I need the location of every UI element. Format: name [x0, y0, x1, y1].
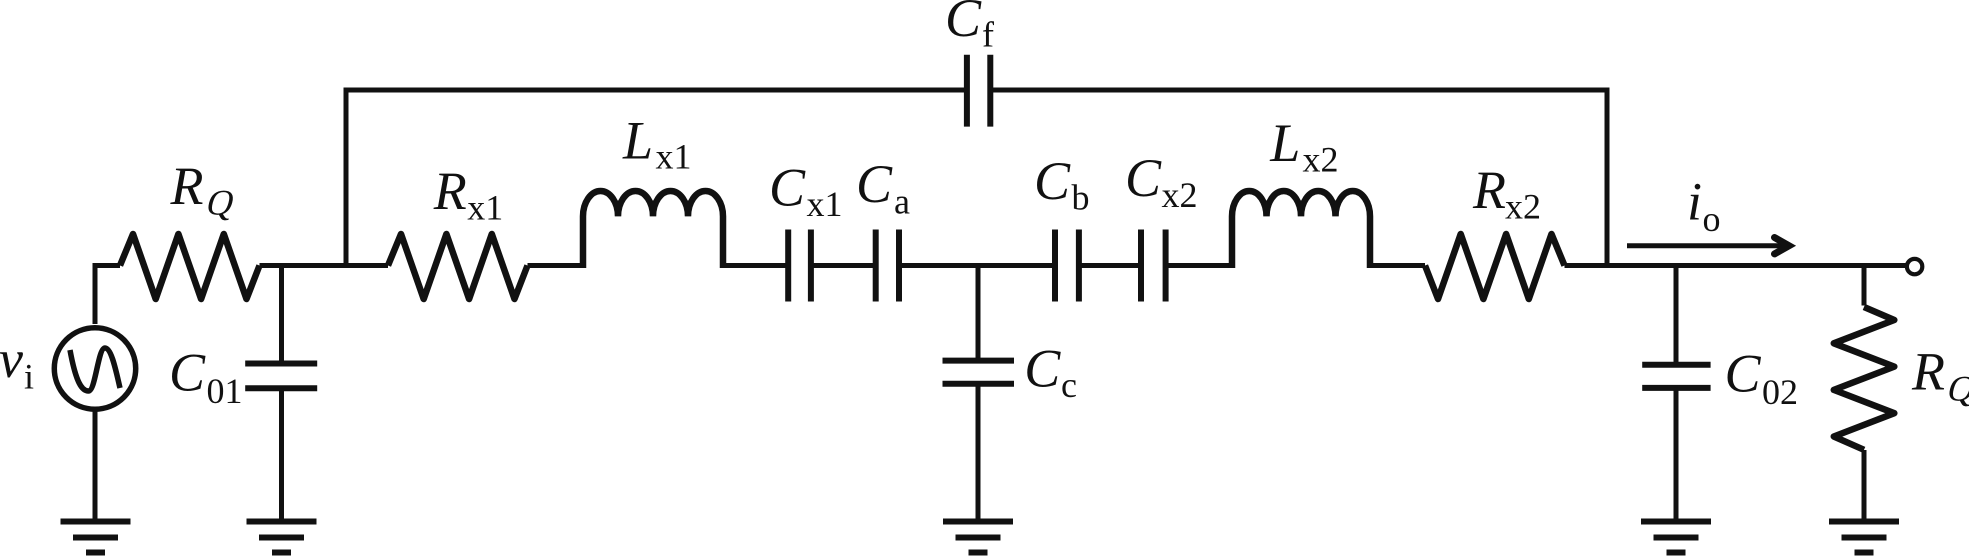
wire: C_c to ground [976, 384, 981, 519]
svg-text:x2: x2 [1303, 140, 1339, 180]
wire: node to C_c [976, 266, 981, 361]
svg-text:i: i [1687, 172, 1702, 232]
svg-text:R: R [170, 156, 204, 216]
wire: C_a to C_b through node A [899, 263, 1055, 268]
svg-text:f: f [982, 15, 994, 55]
arrow i_o shaft [1627, 243, 1785, 248]
svg-text:v: v [0, 329, 23, 389]
svg-text:L: L [622, 111, 653, 171]
svg-text:x1: x1 [467, 188, 503, 228]
resistor R_Q (left, horizontal) [120, 234, 260, 299]
source v_i circle [54, 328, 135, 409]
wire: R_Q right to ground [1862, 450, 1867, 519]
wire: C_02 to ground [1674, 388, 1679, 519]
ground (under right R_Q) [1829, 522, 1899, 553]
svg-text:C: C [169, 343, 206, 403]
svg-text:L: L [1269, 113, 1300, 173]
svg-text:i: i [24, 357, 34, 397]
svg-text:01: 01 [207, 371, 243, 411]
wire: node to C_02 [1674, 266, 1679, 365]
wire: feedback riser left [346, 90, 964, 266]
ground (under source) [61, 522, 131, 553]
capacitor C_x2 plates [1138, 230, 1144, 302]
svg-text:C: C [1024, 338, 1061, 398]
wire: C_x1 to C_a [811, 263, 876, 268]
wire: C_x2 to L_x2 [1166, 263, 1232, 268]
svg-text:C: C [769, 158, 806, 218]
wire: C_01 to ground [279, 388, 284, 519]
wire: L_x2 to R_x2 [1370, 263, 1425, 268]
capacitor C_01 plates [245, 361, 317, 367]
svg-text:C: C [1034, 151, 1071, 211]
wire: top rail right and feedback riser right [990, 90, 1607, 266]
inductor L_x2 [1232, 191, 1370, 268]
svg-text:x2: x2 [1505, 186, 1541, 226]
wire: node to C_01 [279, 266, 284, 364]
svg-text:02: 02 [1762, 372, 1798, 412]
capacitor C_x1 plates [785, 230, 791, 302]
wire: source bottom to ground [93, 410, 98, 519]
svg-text:R: R [1472, 160, 1506, 220]
ground (under C_02) [1641, 522, 1711, 553]
wire: R_x2 to output terminal [1565, 263, 1907, 268]
resistor R_Q (right, vertical) [1834, 307, 1895, 450]
wire: R_x1 to L_x1 [528, 263, 584, 268]
svg-text:C: C [1725, 344, 1762, 404]
capacitor C_02 plates [1642, 362, 1710, 368]
svg-text:x1: x1 [807, 184, 843, 224]
wire: main rail left lead from source top to R_Q [95, 266, 120, 325]
wire: main rail from R_Q to R_x1 [260, 263, 389, 268]
svg-text:R: R [1911, 342, 1945, 402]
svg-text:C: C [856, 154, 893, 214]
svg-text:b: b [1072, 178, 1090, 218]
node: output terminal open circle [1907, 259, 1922, 274]
capacitor C_c plates [943, 358, 1015, 364]
arrow i_o head [1775, 238, 1790, 254]
svg-text:C: C [945, 0, 982, 48]
svg-text:x2: x2 [1162, 175, 1198, 215]
capacitor C_a plates [873, 230, 879, 302]
svg-text:Q: Q [1943, 368, 1969, 408]
resistor R_x2 [1425, 234, 1565, 299]
capacitor C_b plates [1052, 230, 1058, 302]
svg-text:Q: Q [202, 182, 239, 222]
svg-text:o: o [1703, 199, 1721, 239]
svg-text:x1: x1 [656, 137, 692, 177]
svg-text:C: C [1125, 148, 1162, 208]
wire: L_x1 to C_x1 [723, 263, 788, 268]
capacitor C_f plates [964, 55, 970, 127]
inductor L_x1 [583, 191, 723, 268]
wire: C_b to C_x2 [1079, 263, 1141, 268]
svg-text:c: c [1061, 365, 1077, 405]
svg-text:R: R [433, 161, 467, 221]
ground (under C_c) [943, 522, 1013, 553]
wire: node to R_Q (right) [1862, 266, 1867, 306]
resistor R_x1 [388, 234, 528, 299]
source v_i sine wave [70, 348, 120, 391]
svg-text:a: a [894, 182, 910, 222]
ground (under C_01) [247, 522, 317, 553]
